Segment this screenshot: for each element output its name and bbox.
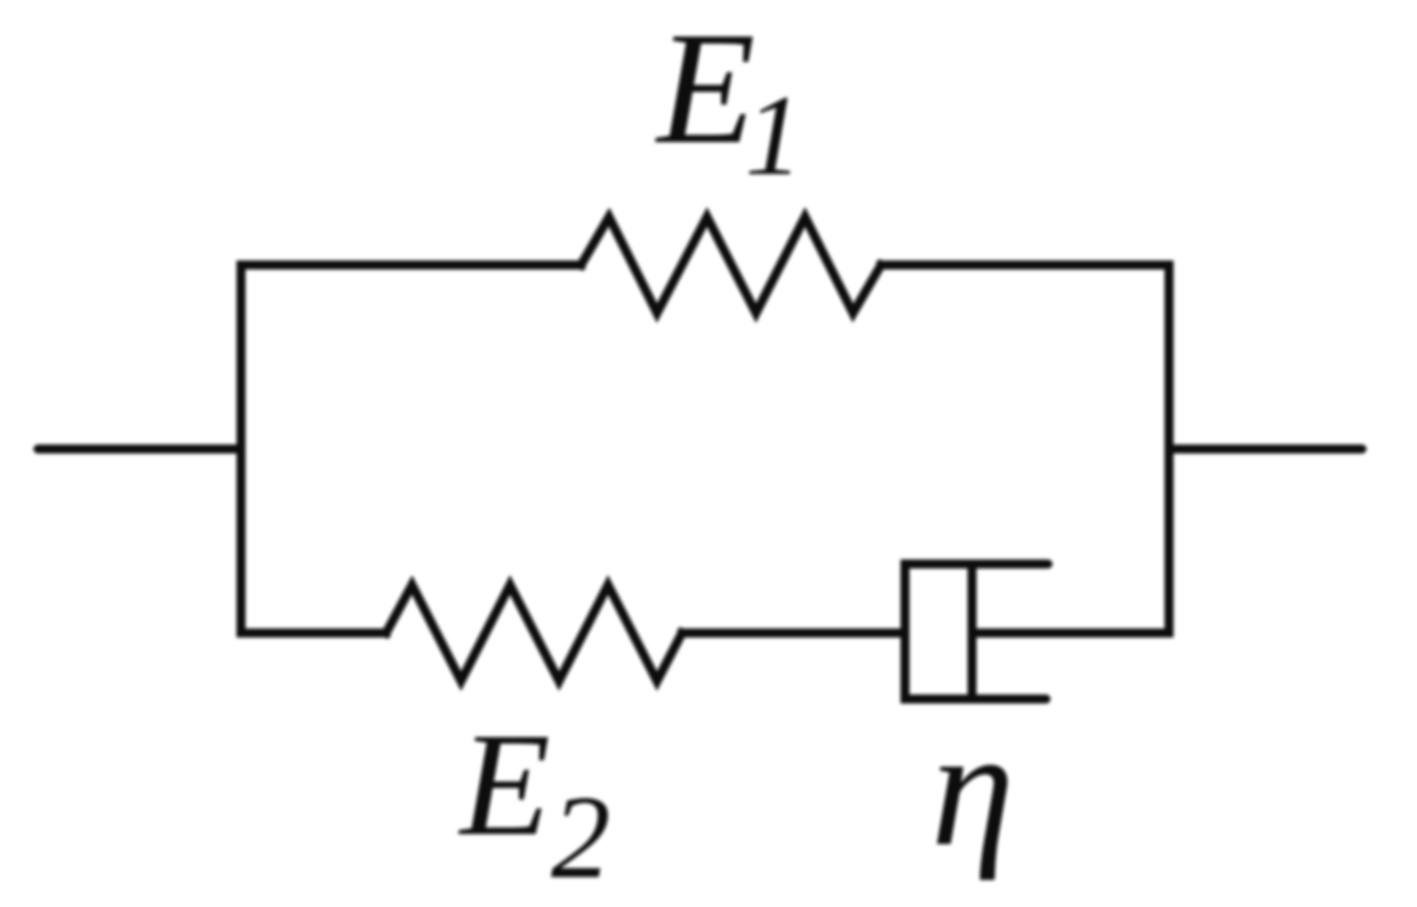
label E1 [655, 0, 803, 199]
left vertical wire [237, 265, 246, 633]
svg-text:η: η [931, 695, 1014, 881]
bottom wire left segment [241, 629, 386, 638]
damper piston rod [972, 629, 1169, 638]
right lead wire [1169, 445, 1362, 454]
right vertical wire [1165, 265, 1174, 633]
label E2 [458, 703, 611, 903]
svg-text:1: 1 [745, 72, 803, 199]
svg-text:2: 2 [551, 771, 611, 903]
left lead wire [38, 445, 241, 454]
svg-text:E: E [458, 703, 550, 867]
svg-text:E: E [655, 0, 755, 177]
top wire right segment [881, 261, 1169, 270]
resistor E2 (spring) [386, 585, 682, 681]
top wire left segment [241, 261, 581, 270]
damper cylinder [905, 564, 1048, 699]
resistor E1 (spring) [581, 217, 881, 313]
wire E2 to damper [682, 629, 905, 638]
damper piston plate [968, 564, 977, 699]
